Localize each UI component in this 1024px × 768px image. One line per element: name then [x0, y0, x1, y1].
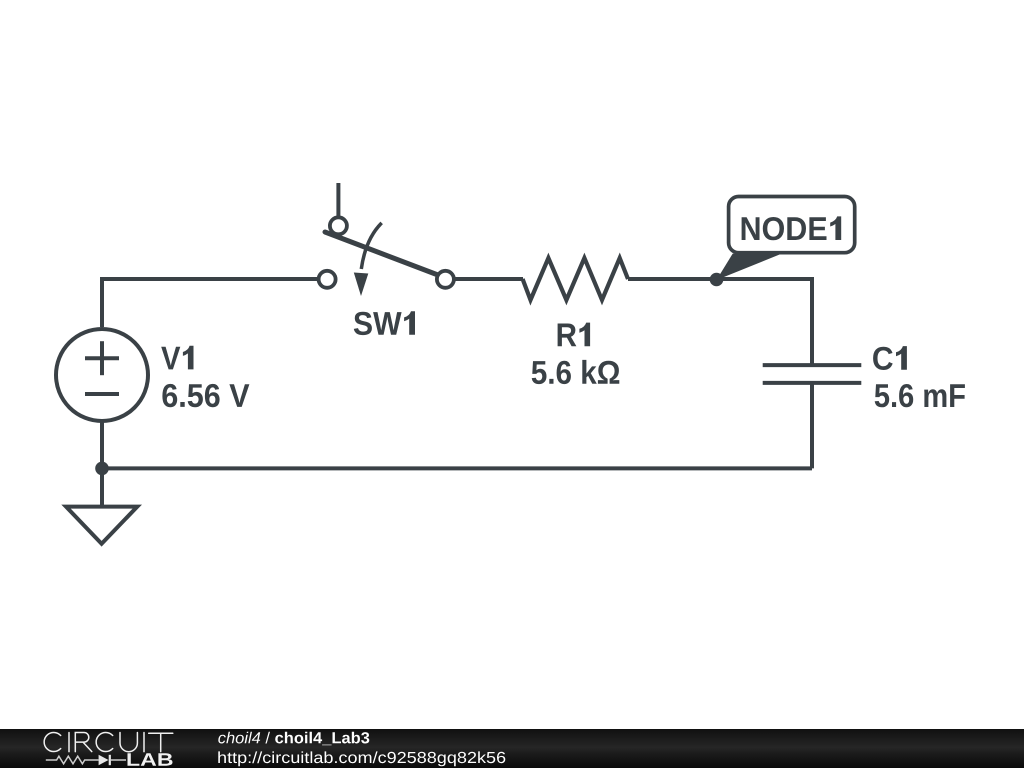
- resistor R1: [523, 258, 628, 300]
- label R1 value 5.6 kOhm: [532, 360, 620, 384]
- logo word LAB: [128, 753, 173, 765]
- logo diode: [99, 755, 109, 765]
- label C1: [873, 346, 907, 370]
- footer bar: [0, 729, 1024, 768]
- logo letter T: [149, 733, 173, 751]
- logo letter R: [75, 733, 92, 752]
- wire from R1 to top-right corner down to capacitor C1: [628, 279, 812, 365]
- logo letter I: [143, 733, 145, 752]
- node label NODE1 flag: [717, 197, 855, 281]
- label V1: [161, 346, 193, 370]
- label R1: [558, 323, 591, 347]
- node junction dot at V1 bottom: [95, 462, 109, 476]
- voltage source V1: [56, 329, 148, 421]
- footer url text: [218, 751, 505, 766]
- logo resistor squiggle: [46, 756, 99, 764]
- logo letter C: [96, 732, 113, 751]
- wire from SW1 right terminal to resistor R1: [454, 277, 523, 281]
- capacitor C1 plates: [763, 365, 862, 383]
- wire from capacitor C1 bottom plate to bottom rail: [810, 383, 814, 469]
- label SW1: [354, 311, 415, 335]
- wire from V1 bottom to ground node: [100, 421, 104, 468]
- node NODE1 junction dot: [710, 273, 724, 287]
- ground: [66, 468, 137, 543]
- CircuitLab logo: [0, 729, 200, 768]
- wire bottom rail: [102, 466, 812, 470]
- label V1 value 6.56 V: [162, 384, 249, 407]
- logo letter C: [44, 732, 61, 751]
- logo letter U: [120, 733, 137, 752]
- wire top-left corner from V1 top to switch SW1 left terminal: [102, 279, 317, 327]
- switch SW1: [319, 183, 454, 296]
- logo letter I: [68, 733, 70, 752]
- label C1 value 5.6 mF: [875, 384, 965, 407]
- footer title choil4 / choil4_Lab3: [218, 732, 369, 746]
